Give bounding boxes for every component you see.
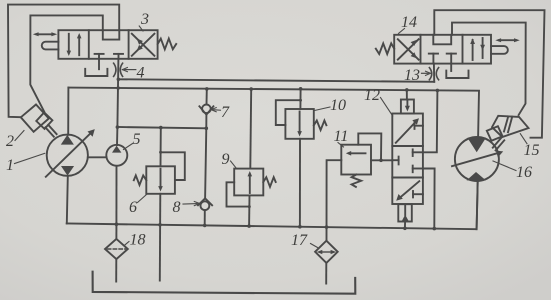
- junction node bus D / valve 9 outlet: [247, 224, 251, 228]
- junction node bus B / valve 12: [405, 88, 409, 92]
- main reservoir tank: [93, 272, 356, 294]
- plugged connection marker 13: [429, 68, 438, 80]
- junction node bus D / filter 17: [325, 225, 329, 229]
- valve 3 return spring: [158, 39, 177, 50]
- wire: pump 5 suction-pressure vertical: [116, 127, 118, 145]
- wire: valve 6 outlet through bus D into tank: [159, 194, 162, 281]
- svg-text:18: 18: [130, 232, 146, 249]
- valve 3 centre-position blocked port left: [95, 54, 104, 59]
- wire: bus A connecting both valve drains: [118, 79, 434, 82]
- leader line of label 8: [183, 203, 197, 205]
- wire: inner pilot loop top-left: [30, 15, 103, 111]
- pressure valve 10: inlet wire from bus B: [299, 89, 301, 109]
- junction node bus C / check valves: [205, 127, 209, 131]
- valve 12 middle section blocked port upper right: [413, 149, 423, 156]
- tank symbol under valve 14: [446, 71, 468, 78]
- wire: valve 10 outlet to bus D: [299, 139, 301, 227]
- wire: valve 3 tank port: [98, 59, 100, 69]
- wire: filter 17 into tank: [325, 263, 327, 284]
- cylinder 2 piston rod: [45, 125, 56, 137]
- junction node valve 11 pilot tap: [379, 159, 383, 163]
- valve 11 spring: [352, 175, 362, 187]
- valve 12 bottom make-up check box: [398, 204, 412, 221]
- valve 3 section divider right: [128, 30, 130, 59]
- wire: bus D return line: [67, 181, 478, 229]
- svg-text:2: 2: [6, 133, 14, 150]
- leader line of label 5: [124, 144, 133, 150]
- valve 14 left-position crossed arrows: [398, 39, 419, 59]
- valve 12 upper section throttle diagonal: [396, 118, 419, 143]
- valve 3 pilot double-headed arrow: [33, 32, 57, 36]
- relief valve 9: inlet wire from bus B: [249, 89, 252, 169]
- valve 9 spring: [263, 177, 275, 187]
- wire: bus B main pressure line: [68, 88, 479, 138]
- valve 14 right-position arrow down: [480, 38, 485, 58]
- valve 9 internal arrow: [248, 171, 253, 193]
- valve 3 centre-position bypass bridge: [103, 30, 120, 39]
- brake valve 12: feed wire from bus B: [406, 90, 408, 100]
- wire: valve 3 drain port down to pump line: [117, 59, 118, 127]
- valve 12 lower section throttle diagonal: [396, 181, 419, 201]
- leader line of label 12: [381, 98, 393, 117]
- stroking cylinder 2: barrel: [21, 105, 49, 132]
- valve 12 main body: [392, 114, 423, 205]
- valve 11 remote pilot loop: [358, 133, 381, 160]
- wire: valve 14 tank port: [450, 64, 452, 71]
- svg-text:10: 10: [330, 97, 346, 114]
- svg-text:3: 3: [140, 11, 149, 28]
- leader line of label 15: [520, 134, 527, 144]
- wire: valve 11 left port to filter 17 drop: [327, 160, 342, 241]
- plugged connection marker 4: [114, 63, 123, 76]
- svg-text:16: 16: [516, 164, 532, 181]
- cylinder 2 piston block: [36, 112, 52, 128]
- directional control valve 3: body: [58, 30, 157, 59]
- leader line of label 7: [213, 109, 221, 112]
- svg-text:9: 9: [222, 151, 230, 168]
- wire: motor 16 drain to bus D: [477, 181, 478, 229]
- junction node bus B / check valve 7: [205, 87, 209, 91]
- variable displacement pump 1: [46, 129, 95, 177]
- tank symbol under valve 3: [85, 69, 107, 76]
- junction node bus C left: [116, 125, 120, 129]
- valve 10 internal arrow: [297, 112, 302, 137]
- junction node on bus A at valve 3 drain: [115, 78, 440, 231]
- valve 12 top make-up check box: [401, 100, 414, 114]
- valve 14 return spring: [376, 43, 394, 54]
- leader line of label 17: [311, 244, 318, 248]
- junction node valve 9 pilot tap: [248, 205, 251, 208]
- pilot relief valve 6: inlet wire: [160, 128, 162, 167]
- cylinder 15 piston collar: [487, 126, 503, 141]
- wire: valve 12 bottom to bus D: [404, 222, 406, 229]
- valve 3 left-position arrow down: [67, 34, 72, 56]
- wire: outer pilot loop top-right: [434, 10, 544, 138]
- auxiliary boost pump 5: [106, 145, 127, 166]
- valve 12 middle section blocked port left: [392, 157, 398, 165]
- valve 6 spring: [134, 175, 147, 185]
- valve 12 section divider lower: [392, 177, 423, 179]
- leader line of label 2: [15, 131, 24, 141]
- wire: valve 9 outlet to bus D: [248, 195, 250, 226]
- cylinder 15 piston rod: [493, 138, 505, 151]
- wire: valve 12 right bypass upper: [423, 90, 438, 152]
- svg-text:1: 1: [6, 157, 14, 174]
- svg-text:8: 8: [173, 199, 181, 216]
- valve 3 right-position crossed arrows: [132, 34, 155, 56]
- svg-text:12: 12: [364, 87, 380, 104]
- junction node bus D / filter 18: [115, 222, 119, 226]
- valve 12 middle section blocked port lower right: [413, 166, 423, 173]
- cylinder 15 piston bars: [504, 117, 512, 133]
- junction node bus B / valve 9: [249, 87, 253, 91]
- valve 12 lower section port stub: [413, 191, 423, 197]
- valve 14 pilot plunger: [491, 46, 508, 54]
- wire: valve 11 right port to valve 12: [371, 159, 392, 161]
- valve 10 spring: [314, 121, 327, 131]
- leader line of label 11: [338, 143, 344, 148]
- wire: segment check valve 7 to bus C: [205, 115, 207, 129]
- valve 12 upper section port stub: [415, 123, 423, 129]
- junction node bus C / valve 6: [159, 126, 163, 130]
- valve 3 centre-position blocked port right: [114, 54, 123, 59]
- wire: valve 12 right bypass lower to bus D: [423, 169, 435, 229]
- wire: bus C boost line: [117, 127, 206, 128]
- svg-text:4: 4: [137, 65, 145, 82]
- valve 6 body: [146, 166, 175, 194]
- leader line of label 16: [493, 161, 516, 171]
- wire: bus B left leg down to pump 1: [67, 88, 69, 135]
- svg-text:15: 15: [524, 142, 540, 159]
- svg-text:14: 14: [401, 14, 417, 31]
- wire: pump 1 drain to bus D: [67, 176, 68, 223]
- valve 14 section divider left: [420, 35, 422, 64]
- junction node bus D / valve 10 outlet: [298, 225, 302, 229]
- svg-text:7: 7: [221, 104, 230, 121]
- check valve 7: [199, 105, 213, 115]
- leader line of label 10: [315, 107, 331, 111]
- wire: valve 14 drain port down to bus A: [433, 64, 435, 82]
- wire: pump 1 to pump 5 link: [88, 156, 107, 158]
- leader line of label 18: [125, 242, 129, 245]
- leader arrow of label 4: [122, 68, 136, 72]
- stroking cylinder 15: barrel: [492, 116, 529, 137]
- valve 3 left-position arrow up: [77, 33, 82, 55]
- valve 3 section divider left: [88, 30, 90, 59]
- valve 11 internal arrow: [346, 151, 366, 156]
- junction node bus B / bypass: [436, 89, 440, 93]
- leader line of label 6: [138, 195, 147, 203]
- valve 9 remote pilot loop: [227, 182, 250, 206]
- filter 18: [105, 239, 128, 259]
- leader line of label 9: [231, 161, 237, 169]
- valve 6 remote pilot loop: [161, 152, 185, 180]
- valve 14 centre-position blocked port left: [429, 54, 438, 64]
- valve 9 body: [234, 169, 263, 196]
- valve 10 body: [285, 109, 313, 139]
- valve 14 centre-position blocked port right: [447, 54, 456, 64]
- pressure valve 11: body: [341, 145, 371, 175]
- junction node bus D / valve 12 bottom: [403, 227, 407, 231]
- wire: inner pilot loop top-right: [452, 23, 526, 115]
- svg-text:11: 11: [334, 128, 349, 145]
- junction node valve 10 pilot tap: [299, 99, 302, 102]
- valve 14 section divider right: [462, 35, 464, 64]
- filter 17: [315, 241, 338, 263]
- directional control valve 14: body: [394, 35, 491, 64]
- wire: check valve leg from bus B: [206, 89, 208, 105]
- valve 14 pilot double-headed arrow: [495, 38, 520, 42]
- valve 14 right-position arrow up: [470, 38, 475, 60]
- valve 3 pilot plunger: [42, 42, 59, 50]
- leader line of label 14: [399, 29, 405, 34]
- check valve 8: [198, 198, 212, 210]
- valve 12 section divider upper: [392, 145, 423, 147]
- wire: pump 5 suction down to filter 18: [115, 166, 117, 239]
- junction node bus B / valve 10: [299, 87, 303, 91]
- valve 10 remote pilot loop: [276, 100, 301, 125]
- junction node bus D / check valve 8: [203, 224, 207, 228]
- wire: outer pilot loop top-left: [8, 5, 119, 118]
- leader arrow of label 13: [422, 71, 431, 75]
- svg-text:17: 17: [291, 232, 308, 249]
- valve 14 centre-position bypass bridge: [433, 35, 451, 45]
- leader line of label 3: [139, 26, 143, 31]
- svg-text:6: 6: [129, 199, 137, 216]
- leader line of label 1: [15, 26, 528, 248]
- hydraulic motor 16: [452, 137, 503, 181]
- wire: check valve 8 to bus D: [204, 210, 206, 225]
- leader arrowhead of label 8: [194, 202, 199, 206]
- svg-text:13: 13: [404, 67, 420, 84]
- junction node bus D / valve 6 outlet: [158, 223, 162, 227]
- svg-text:5: 5: [133, 131, 141, 148]
- junction node bus B / valve 3 drain: [116, 86, 120, 90]
- valve 6 internal arrow: [158, 169, 163, 192]
- wire: segment bus C down to check valve 8: [205, 128, 206, 198]
- leader arrowhead of label 7: [211, 108, 216, 112]
- junction node bus D / bypass: [433, 227, 437, 231]
- junction node valve 6 pilot tap: [159, 151, 162, 154]
- wire: filter 18 into tank: [115, 259, 117, 282]
